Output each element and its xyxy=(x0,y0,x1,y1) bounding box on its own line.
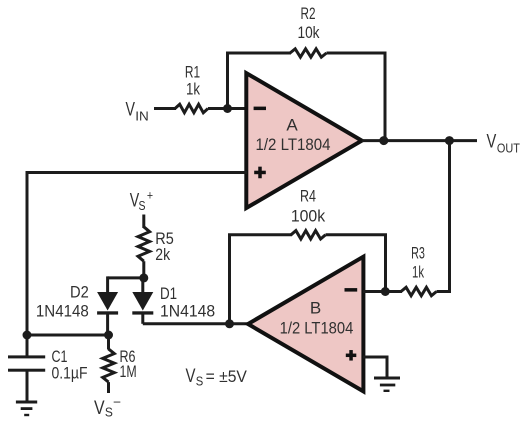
wire: op-amp A noninverting input rail down left side xyxy=(27,173,247,336)
U1A noninverting pin marker xyxy=(254,167,266,179)
resistor R1 xyxy=(175,104,208,112)
wire: VS+ to R5 xyxy=(142,215,145,229)
wire: op-amp B noninverting input to ground xyxy=(363,357,387,378)
svg-text:B: B xyxy=(310,299,321,318)
capacitor C1 xyxy=(8,335,45,401)
node VIN xyxy=(126,100,149,124)
svg-text:R3: R3 xyxy=(411,244,425,263)
node VOUT xyxy=(487,132,520,156)
resistor R4 xyxy=(291,231,326,239)
junction: R5/D1/D2 node xyxy=(139,273,148,282)
svg-text:D2: D2 xyxy=(70,283,89,302)
svg-text:2k: 2k xyxy=(155,245,170,264)
junction: output node at feedback xyxy=(379,136,388,145)
svg-text:S: S xyxy=(105,405,113,420)
wire: R3 up to output node xyxy=(437,141,450,292)
U1B inverting pin marker xyxy=(345,288,358,292)
wire: D2 anode to R5/D1 junction xyxy=(108,276,144,279)
resistor R2 xyxy=(290,49,327,57)
U1A inverting pin marker xyxy=(254,107,266,111)
diode D1 xyxy=(132,278,153,324)
junction: op-amp B output node xyxy=(225,319,234,328)
resistor R6 xyxy=(103,335,115,393)
wire: op-amp B inverting input to R3 xyxy=(363,290,402,293)
svg-text:1N4148: 1N4148 xyxy=(36,302,89,321)
ground at C1 xyxy=(16,401,37,417)
wire: D1 cathode to op-amp B output node xyxy=(143,322,230,325)
svg-text:10k: 10k xyxy=(298,23,320,42)
svg-text:1k: 1k xyxy=(412,262,424,281)
svg-text:A: A xyxy=(286,116,298,135)
wire: op-amp A output to VOUT xyxy=(362,139,477,142)
svg-text:1N4148: 1N4148 xyxy=(160,302,215,321)
svg-text:R4: R4 xyxy=(300,187,316,206)
resistor R3 xyxy=(401,287,437,295)
svg-text:0.1µF: 0.1µF xyxy=(52,364,88,383)
U1B noninverting pin marker xyxy=(346,350,357,361)
diode D2 xyxy=(97,276,118,335)
svg-text:S: S xyxy=(139,198,146,213)
wire: R4 feedback loop left leg xyxy=(230,235,293,324)
wire: R2 to output node xyxy=(327,53,386,141)
svg-text:−: − xyxy=(113,394,121,409)
wire: R1 to op-amp A inverting input xyxy=(208,107,247,110)
svg-text:1M: 1M xyxy=(120,362,137,381)
svg-text:IN: IN xyxy=(135,108,149,123)
wire: bottom rail from C1 node to R6/D2 node xyxy=(27,334,109,337)
wire: R4 feedback loop right leg xyxy=(326,235,386,292)
svg-text:V: V xyxy=(186,366,196,387)
ground at op-amp B xyxy=(374,377,400,393)
junction: output node at R3 branch xyxy=(445,136,454,145)
svg-text:V: V xyxy=(94,398,105,419)
node VS+ xyxy=(130,188,153,213)
op-amp U1A (1/2 LT1804) xyxy=(246,73,361,208)
svg-text:= ±5V: = ±5V xyxy=(206,367,248,386)
svg-text:V: V xyxy=(487,132,497,153)
svg-text:1/2 LT1804: 1/2 LT1804 xyxy=(280,319,354,338)
wire: VIN to R1 xyxy=(154,107,176,110)
op-amp U1B (1/2 LT1804) xyxy=(248,257,363,392)
wire: feedback from inverting node up and across to R2 xyxy=(228,53,292,109)
svg-text:1/2 LT1804: 1/2 LT1804 xyxy=(256,135,331,154)
svg-text:+: + xyxy=(147,188,153,203)
svg-text:V: V xyxy=(126,100,136,121)
junction: op-amp A inverting input node xyxy=(223,104,232,113)
junction: op-amp B inverting node xyxy=(381,287,390,296)
svg-text:D1: D1 xyxy=(160,284,177,303)
svg-text:100k: 100k xyxy=(291,207,326,226)
label VS = +/-5V xyxy=(186,366,248,389)
svg-text:1k: 1k xyxy=(186,80,200,99)
svg-text:OUT: OUT xyxy=(497,140,520,155)
resistor R5 xyxy=(138,227,150,278)
svg-text:R2: R2 xyxy=(301,4,316,23)
junction: C1 node xyxy=(23,331,32,340)
svg-text:S: S xyxy=(196,374,204,389)
node VS- xyxy=(94,394,121,419)
wire: node to op-amp B output tip xyxy=(230,322,251,325)
junction: R6/D2 node xyxy=(104,331,113,340)
